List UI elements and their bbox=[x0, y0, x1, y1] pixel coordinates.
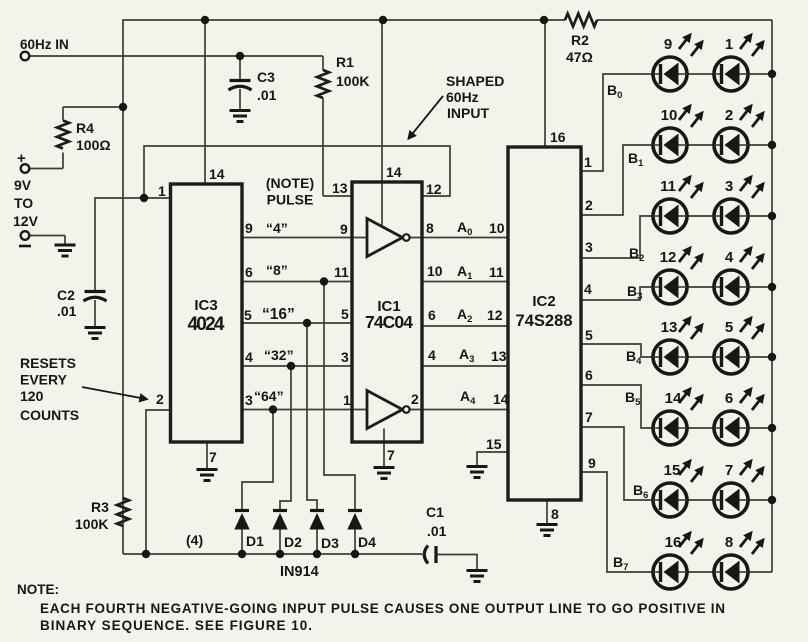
svg-text:COUNTS: COUNTS bbox=[20, 407, 79, 423]
svg-text:1: 1 bbox=[725, 36, 733, 53]
svg-text:3: 3 bbox=[341, 349, 349, 365]
wire right-hand +V rail bbox=[771, 20, 773, 572]
svg-text:3: 3 bbox=[245, 392, 253, 408]
svg-text:R4: R4 bbox=[76, 120, 94, 136]
terminal + supply bbox=[21, 164, 30, 173]
svg-text:13: 13 bbox=[491, 348, 507, 364]
wire IC2 pin 8 to ground bbox=[546, 500, 548, 524]
node +V rail row B4 bbox=[768, 353, 776, 361]
wire LED row B4 bbox=[653, 356, 772, 358]
svg-text:8: 8 bbox=[426, 220, 434, 236]
svg-text:12: 12 bbox=[660, 249, 677, 266]
svg-text:11: 11 bbox=[334, 264, 349, 280]
wire IC2 pin 9 to B7 row bbox=[581, 472, 653, 572]
wire IC3 pin 2 down to reset rail bbox=[146, 410, 171, 554]
svg-text:EACH FOURTH NEGATIVE-GOING INP: EACH FOURTH NEGATIVE-GOING INPUT PULSE C… bbox=[40, 601, 725, 616]
svg-text:9: 9 bbox=[340, 221, 348, 237]
diode D2 bbox=[272, 511, 287, 530]
ground IC2 pin 8 bbox=[537, 525, 558, 536]
svg-text:6: 6 bbox=[245, 264, 253, 280]
svg-text:13: 13 bbox=[332, 180, 348, 196]
wire LED row B3 bbox=[653, 286, 772, 288]
wire A3 line IC1 pin 4 to IC2 pin 13 bbox=[422, 365, 508, 367]
ground IC1 pin 7 bbox=[374, 468, 395, 479]
svg-text:D4: D4 bbox=[358, 534, 376, 550]
svg-text:7: 7 bbox=[209, 449, 217, 465]
svg-text:74C04: 74C04 bbox=[365, 312, 413, 332]
wire diode D4 branch from pin6 row bbox=[324, 282, 355, 511]
svg-text:“4”: “4” bbox=[266, 220, 288, 236]
LED 1 bbox=[714, 35, 763, 91]
svg-text:C1: C1 bbox=[426, 504, 444, 520]
svg-text:13: 13 bbox=[661, 319, 678, 336]
wire LED row B0 bbox=[653, 73, 772, 75]
svg-text:SHAPED: SHAPED bbox=[446, 73, 504, 89]
node pin 5 row diode tap bbox=[303, 319, 311, 327]
resistor R2 bbox=[565, 14, 597, 27]
wire R1 bottom lead down to IC1 pin 13 stub bbox=[322, 98, 324, 196]
svg-text:4: 4 bbox=[245, 349, 253, 365]
svg-text:D2: D2 bbox=[284, 534, 302, 550]
node top rail at IC2 pin 16 bbox=[540, 16, 548, 24]
wire IC2 pin 15 to ground bbox=[477, 452, 508, 466]
wire diode D3 branch from pin5 row bbox=[307, 323, 317, 510]
LED 7 bbox=[714, 461, 763, 517]
wire IC2 pin 4 to B3 row bbox=[581, 287, 653, 300]
wire diode D1 branch from pin3 row bbox=[242, 410, 273, 511]
svg-text:14: 14 bbox=[209, 166, 225, 182]
svg-text:120: 120 bbox=[20, 388, 44, 404]
diode D3 bbox=[309, 511, 324, 530]
svg-text:2: 2 bbox=[725, 107, 733, 124]
svg-text:4: 4 bbox=[584, 281, 592, 297]
wire LED row B7 bbox=[653, 571, 772, 573]
svg-text:(NOTE): (NOTE) bbox=[266, 175, 314, 191]
wire top supply rail left segment bbox=[123, 20, 565, 554]
LED 13 bbox=[653, 318, 702, 374]
svg-text:6: 6 bbox=[585, 367, 593, 383]
svg-text:8: 8 bbox=[725, 534, 733, 551]
svg-text:IC3: IC3 bbox=[194, 297, 217, 314]
wire IC2 pin 1 to B0 row bbox=[581, 74, 653, 171]
svg-text:D1: D1 bbox=[246, 533, 264, 549]
wire LED row B1 bbox=[653, 144, 772, 146]
node +V rail row B3 bbox=[768, 283, 776, 291]
wire C3 top lead bbox=[239, 56, 241, 80]
diode D1 bbox=[234, 511, 249, 530]
resistor R3 bbox=[117, 498, 129, 526]
capacitor C2 bbox=[84, 292, 107, 302]
svg-text:7: 7 bbox=[725, 462, 733, 479]
node IC3 pin 1 feedback tap bbox=[140, 194, 148, 202]
wire IC3 pin 9 to IC1 pin 9 row bbox=[242, 237, 367, 239]
resistor R4 bbox=[57, 121, 69, 149]
svg-text:5: 5 bbox=[341, 306, 349, 322]
svg-text:12V: 12V bbox=[13, 213, 39, 229]
wire D4 anode lead bbox=[354, 529, 356, 554]
wire R4 leads bbox=[62, 153, 64, 169]
svg-text:4: 4 bbox=[725, 249, 734, 266]
op-amp IC2 74S288 box bbox=[508, 147, 581, 500]
svg-text:60Hz IN: 60Hz IN bbox=[20, 37, 69, 52]
node reset rail at IC3 pin 2 bbox=[142, 550, 150, 558]
wire A2 line IC1 pin 6 to IC2 pin 12 bbox=[422, 325, 508, 327]
wire top supply rail right segment bbox=[597, 19, 772, 21]
svg-text:+: + bbox=[17, 150, 26, 167]
wire IC3 pin 1 to C2 bbox=[95, 198, 171, 291]
LED 14 bbox=[653, 389, 702, 445]
wire IC2 pin 7 to B6 row bbox=[581, 427, 653, 500]
svg-text:12: 12 bbox=[426, 181, 442, 197]
node top rail at IC1 pin 14 bbox=[379, 16, 387, 24]
wire R1 top lead bbox=[322, 56, 324, 70]
wire IC3 pin 3 to IC1 pin 1 row bbox=[242, 409, 367, 411]
svg-text:6: 6 bbox=[428, 307, 436, 323]
node +V rail row B0 bbox=[768, 70, 776, 78]
svg-text:1: 1 bbox=[584, 154, 592, 170]
svg-text:14: 14 bbox=[665, 390, 682, 407]
ground C2 bbox=[85, 328, 106, 339]
wire diode D2 branch from pin4 row bbox=[280, 366, 291, 510]
LED 2 bbox=[714, 106, 763, 162]
ground C3 bbox=[230, 111, 251, 122]
node reset rail at D1 bbox=[238, 550, 246, 558]
LED 3 bbox=[714, 177, 763, 233]
wire bottom reset rail bbox=[123, 553, 422, 555]
svg-text:14: 14 bbox=[493, 391, 509, 407]
svg-text:16: 16 bbox=[665, 534, 682, 551]
svg-text:12: 12 bbox=[487, 307, 503, 323]
wire D1 anode lead bbox=[241, 529, 243, 554]
svg-text:9: 9 bbox=[245, 220, 253, 236]
terminal - supply bbox=[21, 231, 30, 240]
svg-text:C3: C3 bbox=[257, 69, 275, 85]
svg-text:TO: TO bbox=[14, 195, 33, 211]
svg-text:3: 3 bbox=[585, 239, 593, 255]
wire IC1 pin 7 to ground bbox=[383, 429, 385, 468]
svg-text:4024: 4024 bbox=[188, 314, 225, 335]
wire IC2 pin 5 to B4 row bbox=[581, 344, 653, 357]
svg-text:7: 7 bbox=[387, 447, 395, 463]
svg-text:4: 4 bbox=[428, 347, 436, 363]
svg-text:(4): (4) bbox=[186, 532, 203, 548]
svg-text:.01: .01 bbox=[427, 523, 447, 539]
node +V rail row B1 bbox=[768, 141, 776, 149]
wire IC2 pin 16 from top rail bbox=[544, 20, 546, 147]
ground IC2 pin 15 bbox=[467, 467, 488, 478]
svg-text:60Hz: 60Hz bbox=[446, 89, 479, 105]
svg-text:NOTE:: NOTE: bbox=[17, 582, 59, 597]
svg-text:R1: R1 bbox=[336, 54, 354, 70]
svg-text:8: 8 bbox=[551, 506, 559, 522]
svg-text:5: 5 bbox=[244, 307, 252, 323]
svg-text:“8”: “8” bbox=[266, 262, 288, 278]
svg-text:14: 14 bbox=[386, 164, 402, 180]
wire C3 bottom lead to ground bbox=[239, 89, 241, 110]
node pin 3 row diode tap bbox=[269, 405, 277, 413]
node reset rail at D4 bbox=[351, 550, 359, 558]
wire IC3 pin 5 to IC1 pin 5 bbox=[242, 322, 352, 324]
svg-text:PULSE: PULSE bbox=[267, 192, 314, 208]
svg-text:INPUT: INPUT bbox=[447, 105, 489, 121]
LED 15 bbox=[653, 461, 702, 517]
svg-text:C2: C2 bbox=[57, 287, 75, 303]
node +V rail row B2 bbox=[768, 212, 776, 220]
svg-text:“32”: “32” bbox=[264, 347, 294, 363]
minus sign supply bbox=[19, 245, 31, 248]
svg-text:10: 10 bbox=[427, 263, 443, 279]
op-amp IC1 74C04 box bbox=[352, 182, 422, 442]
wire shaped 60Hz feedback line bbox=[144, 146, 450, 198]
wire C1 right lead to ground bbox=[437, 555, 477, 571]
svg-text:6: 6 bbox=[725, 390, 733, 407]
svg-text:16: 16 bbox=[550, 129, 566, 145]
wire IC3 pin 7 to ground bbox=[206, 442, 208, 469]
svg-text:100Ω: 100Ω bbox=[76, 137, 111, 153]
wire arrow resets every 120 counts bbox=[82, 387, 146, 399]
wire A1 line IC1 pin 10 to IC2 pin 11 bbox=[422, 281, 508, 283]
LED 6 bbox=[714, 389, 763, 445]
capacitor C3 bbox=[229, 81, 252, 91]
LED 4 bbox=[714, 248, 763, 304]
svg-text:11: 11 bbox=[660, 178, 676, 195]
svg-text:“16”: “16” bbox=[262, 306, 295, 323]
svg-text:3: 3 bbox=[725, 178, 733, 195]
wire IC2 pin 2 to B1 row bbox=[581, 145, 653, 215]
wire 60Hz input line to C3 and R1 bbox=[29, 55, 323, 57]
svg-text:100K: 100K bbox=[336, 73, 369, 89]
svg-text:RESETS: RESETS bbox=[20, 355, 76, 371]
wire IC3 pin 4 to IC1 pin 3 bbox=[242, 365, 352, 367]
svg-text:9: 9 bbox=[588, 455, 596, 471]
LED 12 bbox=[653, 248, 702, 304]
wire - terminal to ground bbox=[29, 235, 65, 237]
LED 9 bbox=[653, 35, 702, 91]
svg-text:2: 2 bbox=[585, 197, 593, 213]
svg-text:100K: 100K bbox=[75, 516, 108, 532]
wire IC2 pin 3 to B2 row bbox=[581, 216, 653, 258]
svg-text:BINARY SEQUENCE. SEE FIGURE 1: BINARY SEQUENCE. SEE FIGURE 10. bbox=[40, 618, 312, 633]
LED 11 bbox=[653, 177, 702, 233]
node reset rail at D2 bbox=[276, 550, 284, 558]
wire A0 inverter output to IC2 pin 10 bbox=[410, 237, 508, 239]
svg-text:R3: R3 bbox=[91, 499, 109, 515]
svg-text:1: 1 bbox=[343, 392, 351, 408]
node pin 4 row diode tap bbox=[287, 362, 295, 370]
ground C1 bbox=[467, 571, 488, 582]
svg-text:.01: .01 bbox=[257, 87, 277, 103]
wire LED row B2 bbox=[653, 215, 772, 217]
node pin 6 row diode tap bbox=[320, 277, 328, 285]
svg-text:9V: 9V bbox=[14, 177, 32, 193]
svg-text:15: 15 bbox=[486, 436, 502, 452]
node top rail at IC3 pin 14 bbox=[201, 16, 209, 24]
svg-text:R2: R2 bbox=[571, 32, 589, 48]
node +V rail at R4 bbox=[119, 103, 127, 111]
LED 8 bbox=[714, 533, 763, 589]
node +V rail row B6 bbox=[768, 496, 776, 504]
wire R4 bottom to + terminal bbox=[29, 168, 63, 170]
svg-text:11: 11 bbox=[489, 264, 504, 280]
inverter IC1 upper A0 bbox=[367, 219, 410, 257]
wire LED row B6 bbox=[653, 499, 772, 501]
wire IC3 pin 14 from top rail bbox=[204, 20, 206, 184]
svg-text:47Ω: 47Ω bbox=[566, 49, 593, 65]
svg-text:5: 5 bbox=[585, 327, 593, 343]
wire arrow to shaped 60Hz input bbox=[409, 96, 443, 138]
wire LED row B5 bbox=[653, 427, 772, 429]
svg-text:IC2: IC2 bbox=[532, 293, 555, 310]
svg-text:2: 2 bbox=[156, 391, 164, 407]
svg-text:10: 10 bbox=[661, 107, 678, 124]
node reset rail at D3 bbox=[313, 550, 321, 558]
wire IC3 pin 6 to IC1 pin 11 bbox=[242, 281, 352, 283]
svg-text:74S288: 74S288 bbox=[516, 312, 573, 330]
ground power supply minus bbox=[55, 245, 76, 256]
svg-text:7: 7 bbox=[585, 409, 593, 425]
svg-text:D3: D3 bbox=[321, 535, 339, 551]
terminal 60Hz IN bbox=[21, 52, 30, 61]
wire IC1 pin 13 stub bbox=[323, 195, 352, 197]
svg-text:2: 2 bbox=[411, 391, 419, 407]
wire A4 inverter output to IC2 pin 14 bbox=[410, 409, 508, 411]
node +V rail row B5 bbox=[768, 424, 776, 432]
diode D4 bbox=[347, 511, 362, 530]
svg-text:1: 1 bbox=[158, 183, 166, 199]
svg-text:10: 10 bbox=[489, 220, 505, 236]
LED 5 bbox=[714, 318, 763, 374]
LED 10 bbox=[653, 106, 702, 162]
op-amp IC3 4024 counter box bbox=[171, 184, 243, 442]
capacitor C1 bbox=[422, 546, 436, 564]
wire IC1 pin 14 from top rail bbox=[381, 20, 383, 226]
wire R4 top to +V rail junction bbox=[63, 106, 123, 108]
wire D3 anode lead bbox=[316, 529, 318, 554]
inverter IC1 lower A4 bbox=[367, 391, 410, 429]
resistor R1 bbox=[317, 70, 329, 98]
wire IC2 pin 6 to B5 row bbox=[581, 385, 653, 428]
svg-text:9: 9 bbox=[664, 36, 672, 53]
svg-text:IN914: IN914 bbox=[280, 564, 319, 580]
LED 16 bbox=[653, 533, 702, 589]
node 60Hz line at C3 bbox=[236, 52, 244, 60]
svg-text:“64”: “64” bbox=[254, 388, 284, 404]
wire D2 anode lead bbox=[279, 529, 281, 554]
svg-text:5: 5 bbox=[725, 319, 733, 336]
wire C2 bottom lead to ground bbox=[94, 300, 96, 327]
svg-text:EVERY: EVERY bbox=[20, 372, 68, 388]
svg-text:.01: .01 bbox=[57, 303, 77, 319]
svg-text:15: 15 bbox=[664, 462, 681, 479]
ground IC3 pin 7 bbox=[197, 470, 218, 481]
